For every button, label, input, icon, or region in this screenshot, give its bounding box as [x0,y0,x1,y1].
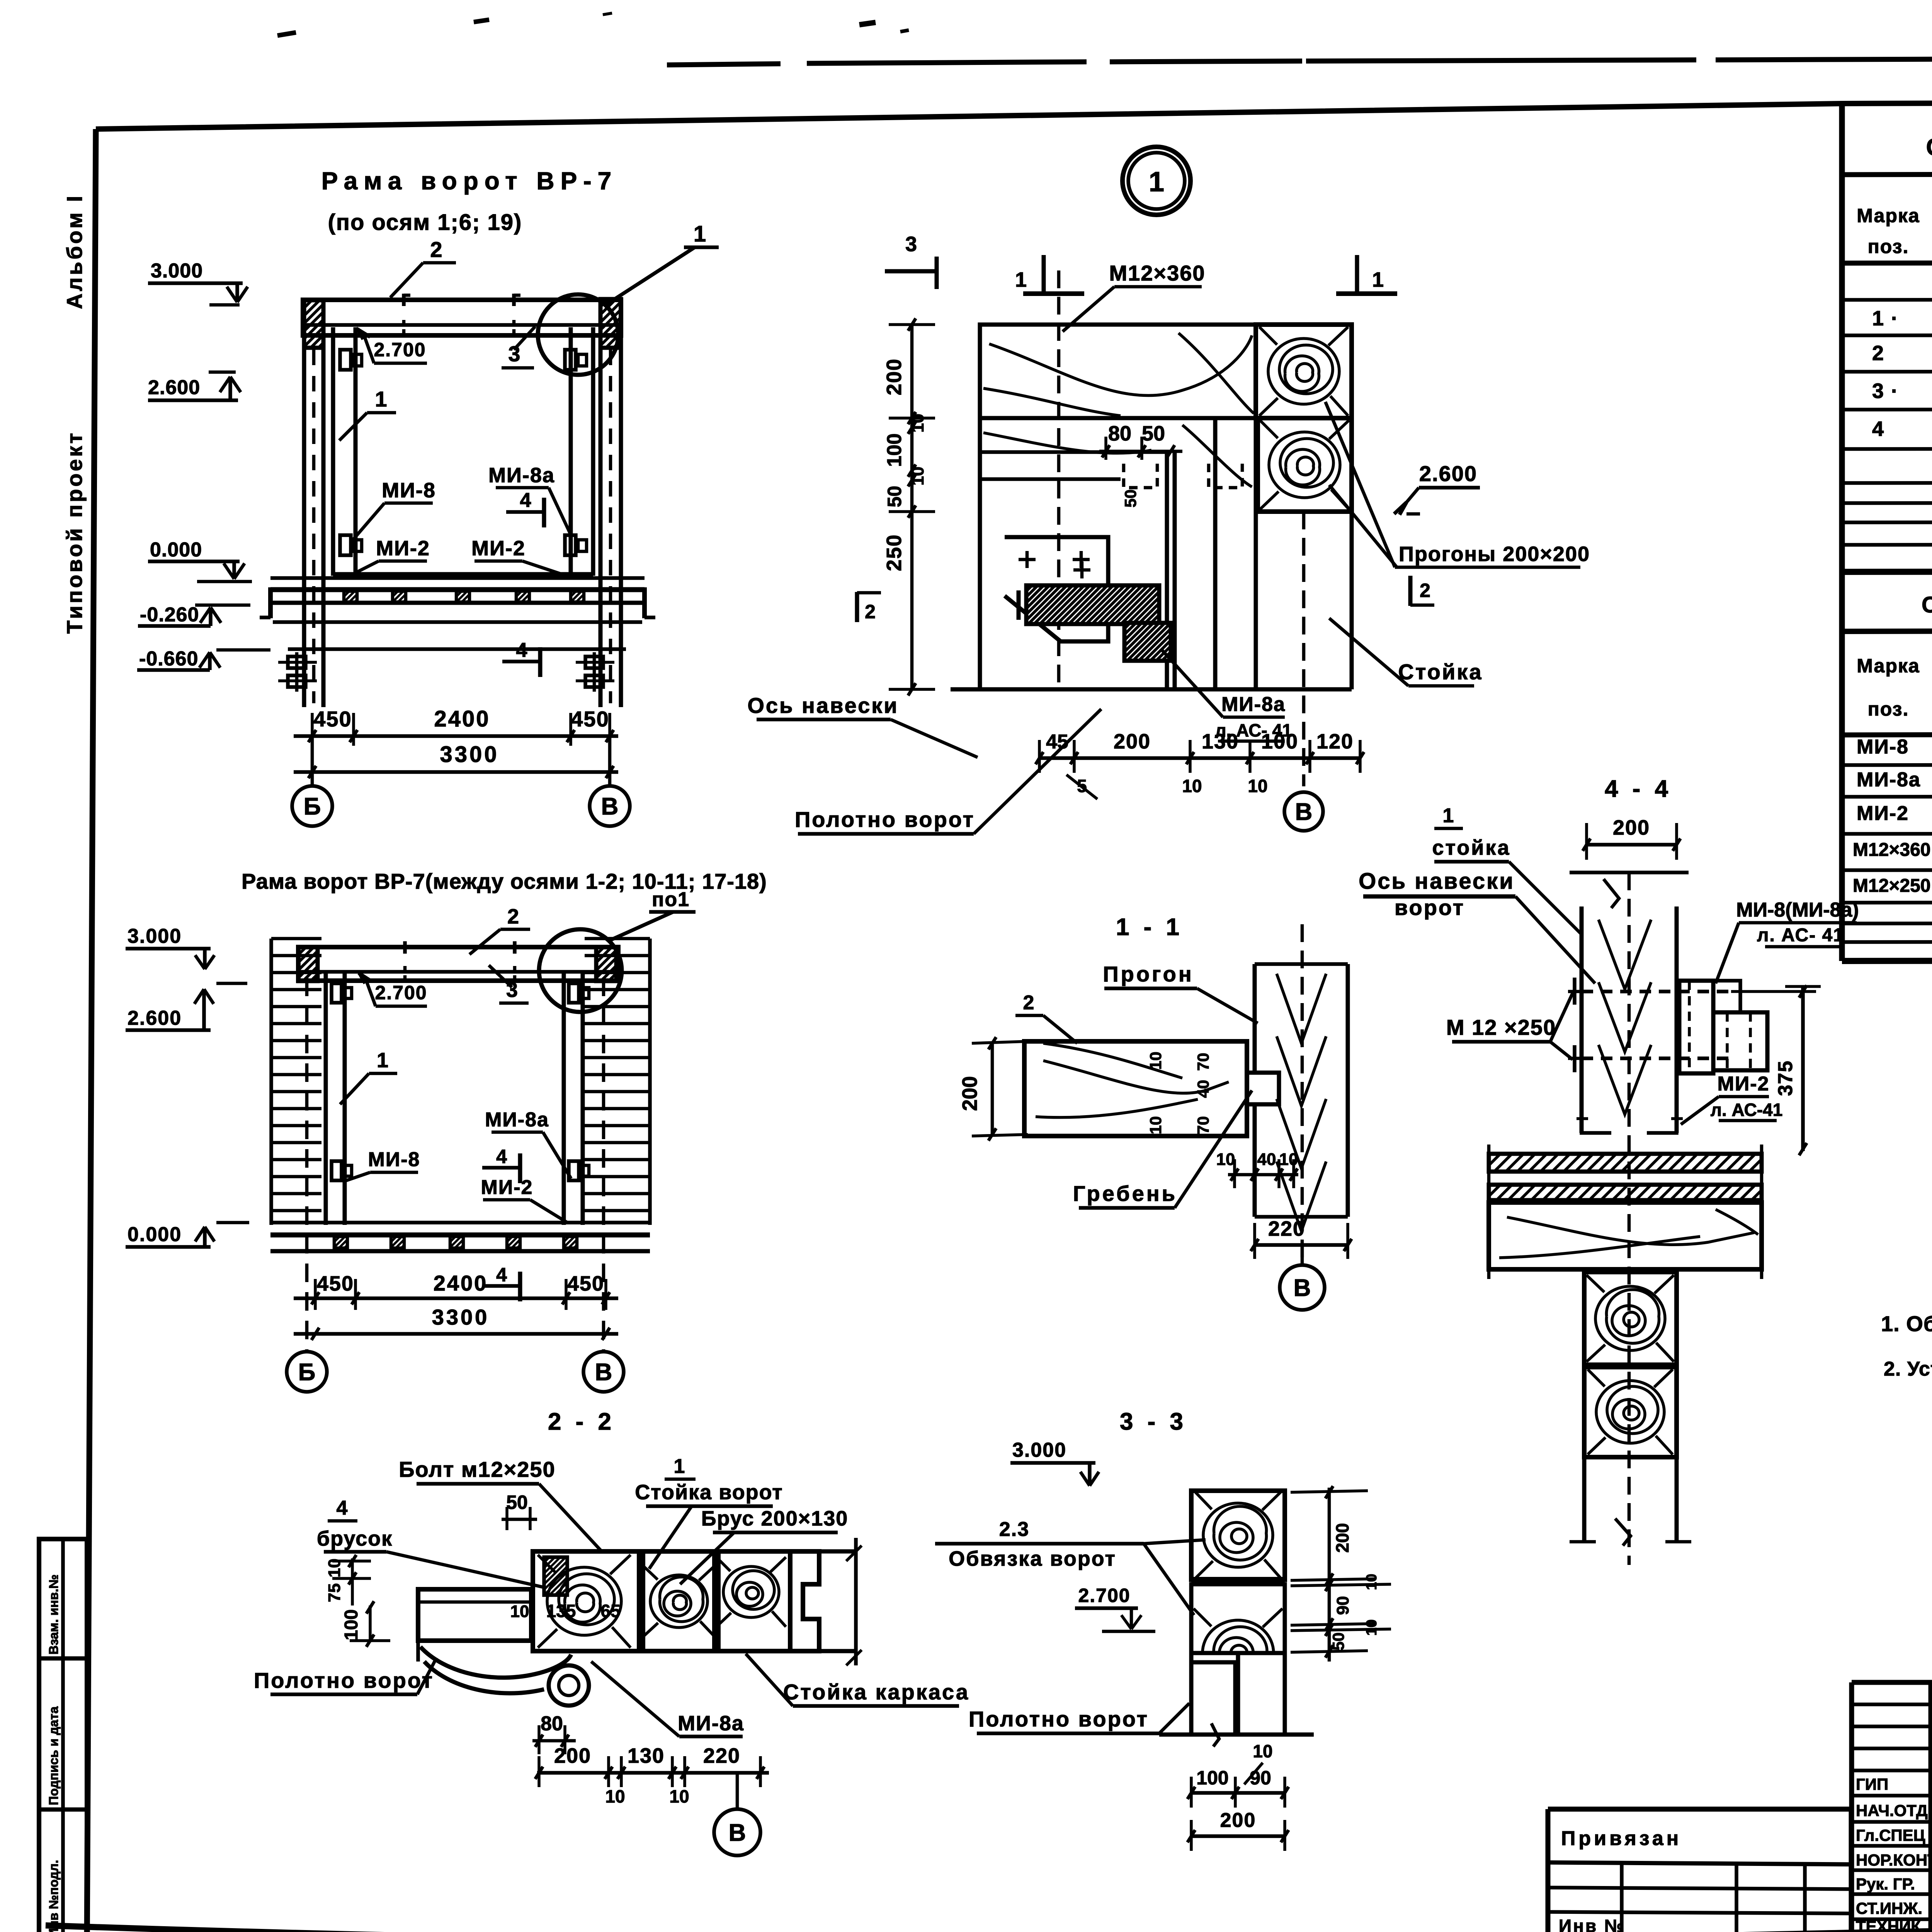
frame1 right post [599,348,603,707]
frame2 top beam [298,947,618,981]
detail1 hinge vertical part [1124,623,1171,661]
svg-text:10: 10 [908,414,927,433]
scan speck marks top [277,32,296,36]
s44 post break top [1604,879,1619,908]
svg-text:М12×360: М12×360 [1853,840,1931,860]
s22 square2 [643,1551,714,1651]
svg-text:Инв №: Инв № [1559,1916,1626,1932]
s44 hinge body [1679,981,1713,1073]
svg-text:В: В [1295,799,1313,825]
svg-text:2400: 2400 [434,706,490,731]
frame1 dim line 450-2400-450 [294,734,618,738]
svg-text:Марка: Марка [1857,655,1920,677]
frame1 left stile [331,327,335,576]
svg-text:1: 1 [1015,268,1027,291]
svg-text:МИ-2: МИ-2 [1857,802,1909,825]
s33 dims 100-90 [1191,1791,1285,1795]
detail1 axis dash hinge [1057,270,1061,689]
frame1 axis line right [608,736,612,785]
frame1 section2 mark right [642,587,647,618]
svg-text:МИ-2: МИ-2 [481,1176,533,1199]
svg-text:МИ-8(МИ-8а): МИ-8(МИ-8а) [1736,899,1859,921]
detail1 section mark 1 topleft [1042,255,1046,292]
s44 ring square 2 [1584,1367,1677,1457]
detail1 left edge [978,325,982,689]
frame1 section4 mark bottom [502,660,540,663]
svg-text:Альбом I: Альбом I [62,194,87,309]
detail1 ring square top [1256,325,1352,418]
svg-text:Ось навески: Ось навески [747,693,898,718]
svg-text:10: 10 [605,1786,625,1806]
svg-text:поз.: поз. [1868,698,1909,720]
svg-text:2 - 2: 2 - 2 [548,1408,615,1435]
svg-text:450: 450 [317,1272,354,1295]
s11 tenon [1247,1073,1279,1104]
svg-text:250: 250 [883,534,906,571]
frame1 top beam [303,300,621,335]
svg-text:Стойка ворот: Стойка ворот [635,1481,783,1504]
frame2 hinge #3 [332,1161,342,1180]
svg-text:1. Общие примечания смотри л.: 1. Общие примечания смотри л. АС-16 [1881,1311,1932,1336]
detail1 hinge barrel [1026,585,1159,624]
svg-text:(по осям 1;6; 19): (по осям 1;6; 19) [328,210,522,235]
svg-text:375: 375 [1774,1060,1797,1096]
s44 ring square 1 [1584,1272,1677,1365]
svg-text:200: 200 [554,1744,591,1767]
svg-text:10: 10 [1248,776,1267,796]
svg-text:Б: Б [304,793,321,820]
svg-text:В: В [595,1359,612,1386]
frame2 hinge #1 [332,983,342,1003]
svg-text:3.000: 3.000 [151,260,203,282]
detail1 leaf edge [1165,452,1169,689]
wood spec table left edge [1839,104,1845,572]
s11 dim 220 [1255,1243,1348,1247]
svg-text:2: 2 [1872,342,1884,365]
s44 floor band 2 [1489,1185,1762,1200]
svg-text:Гл.СПЕЦ: Гл.СПЕЦ [1856,1826,1925,1844]
s22 hinge strap [420,1647,571,1678]
svg-text:Обвязка ворот: Обвязка ворот [949,1547,1116,1570]
detail1 beam top band [980,325,1352,418]
s22 leaf [418,1589,531,1641]
s11 post grain [1277,974,1326,1043]
svg-text:450: 450 [313,707,352,731]
s22 leaf lines [418,1600,531,1604]
svg-text:2: 2 [430,237,443,262]
svg-text:Спецификация металлических из: Спецификация металлических изделий на ра… [1922,592,1932,617]
svg-text:МИ-8а: МИ-8а [485,1109,549,1131]
s44 floor band 1 [1489,1154,1762,1172]
metal spec heading bottom [1842,630,1932,631]
s44 beam below [1489,1202,1762,1269]
svg-text:10: 10 [1146,1052,1165,1070]
svg-text:10: 10 [1216,1150,1235,1169]
s33 rings mid [1194,1609,1282,1697]
svg-text:4 - 4: 4 - 4 [1605,776,1672,802]
frame2 axis dash right [602,978,605,1352]
frame1 beam hatch end left [304,300,323,348]
svg-text:Рук. ГР.: Рук. ГР. [1856,1875,1915,1893]
wood spec header bottom [1842,262,1932,263]
svg-text:1: 1 [1372,268,1384,291]
s22 axis В [714,1809,760,1855]
detail1 left dim chain [910,325,914,689]
frame2 right stile [562,972,566,1225]
s44 bolt tick bottom [1573,1045,1577,1072]
svg-text:1: 1 [1443,804,1454,827]
svg-text:В: В [1294,1275,1311,1301]
frame2 sill lines [270,1221,650,1225]
svg-text:3 ·: 3 · [1872,379,1899,403]
staff table row lines [1852,1794,1932,1798]
svg-text:450: 450 [571,707,609,731]
svg-text:4: 4 [520,489,531,512]
svg-text:130: 130 [628,1744,665,1767]
svg-text:Гребень: Гребень [1073,1181,1177,1206]
svg-text:50: 50 [1329,1633,1347,1651]
detail1 bottom dims [1039,756,1360,760]
svg-text:В: В [601,793,619,820]
s44 post below break [1615,1519,1631,1546]
frame1 hinge МИ-8 #4 [565,535,576,555]
svg-text:ГИП: ГИП [1856,1775,1888,1793]
svg-text:75: 75 [325,1583,344,1602]
svg-text:100: 100 [1196,1767,1228,1789]
s33 bottom ground [1159,1733,1314,1737]
frame2 dims 450-2400-450 [294,1296,618,1300]
svg-text:2.700: 2.700 [374,339,426,361]
s22 pritvor bar [544,1557,567,1595]
svg-text:-0.260: -0.260 [140,604,199,626]
detail1 dashed pocket left [1124,464,1157,488]
svg-text:2.600: 2.600 [1419,461,1477,486]
svg-text:50: 50 [1121,490,1139,508]
sheet bottom line [46,1920,1932,1932]
frame1 hinge МИ-8 #2 [565,350,576,370]
frame2 hatch blocks [334,1236,347,1248]
frame2 axis Б [287,1352,327,1392]
svg-text:200: 200 [1332,1523,1352,1553]
svg-text:0.000: 0.000 [150,539,202,561]
svg-text:3 - 3: 3 - 3 [1120,1408,1187,1435]
stamp cell divider 2 [39,1808,87,1812]
svg-text:1 ·: 1 · [1872,307,1899,330]
sheet top edge line [667,64,781,65]
svg-text:Болт м12×250: Болт м12×250 [399,1457,555,1481]
detail1 stoyka edge [1213,418,1218,689]
frame2 beam hatch right [596,947,616,981]
detail1 balloon [1122,147,1190,215]
s11 post axis [1301,924,1304,1260]
svg-text:3300: 3300 [432,1305,490,1329]
s22 square3 [718,1551,790,1651]
svg-text:ворот: ворот [1395,895,1465,920]
svg-text:МИ-8: МИ-8 [1857,736,1909,758]
svg-text:4: 4 [337,1497,348,1519]
svg-text:МИ-2: МИ-2 [376,537,430,560]
svg-text:НАЧ.ОТД: НАЧ.ОТД [1856,1801,1928,1820]
s44 hinge dash top [1582,990,1731,993]
svg-text:МИ-8а: МИ-8а [488,464,555,487]
metal spec header bottom [1842,733,1932,735]
s44 floor edge ticks [1487,1145,1491,1202]
svg-text:80: 80 [1108,422,1131,445]
s44 post below [1582,1457,1587,1542]
s44 post [1580,906,1584,1133]
frame1 axis Б [292,786,332,826]
svg-text:10: 10 [1279,1150,1298,1169]
frame1 hinge МИ-8 #3 [340,535,351,555]
s11 post [1253,964,1257,1073]
svg-text:200: 200 [958,1076,981,1111]
frame2 callout по1 [609,912,673,941]
svg-text:80: 80 [541,1713,563,1735]
svg-text:Инв №подл.: Инв №подл. [46,1860,61,1932]
wood spec heading underline row [1842,173,1932,175]
svg-text:200: 200 [1613,816,1650,839]
svg-text:В: В [729,1820,746,1846]
s44 beam below grain [1507,1217,1754,1245]
svg-text:МИ-8: МИ-8 [368,1148,420,1171]
svg-text:40: 40 [1257,1150,1276,1169]
frame1 anchor bolts #1 [288,656,306,668]
svg-text:л. АС-41: л. АС-41 [1711,1100,1783,1120]
svg-text:10: 10 [510,1602,529,1621]
stamp cell divider 1 [39,1656,87,1661]
frame1 dim line 3300 [294,770,618,774]
svg-text:Полотно ворот: Полотно ворот [254,1668,434,1692]
frame1 hinge МИ-8 #1 [340,350,351,370]
svg-text:Ось навески: Ось навески [1359,869,1515,894]
svg-text:45: 45 [1046,731,1068,753]
svg-text:200: 200 [1220,1809,1256,1832]
svg-text:450: 450 [567,1272,604,1295]
svg-text:200: 200 [1114,730,1151,753]
svg-text:10: 10 [908,467,927,486]
detail1 dashed pocket right [1209,464,1242,488]
svg-text:200: 200 [883,358,906,395]
svg-text:70: 70 [1194,1053,1212,1071]
s44 dim 375 [1801,986,1805,1151]
svg-text:2: 2 [865,601,876,622]
svg-text:М12×360: М12×360 [1109,261,1205,285]
s44 dim 200 top [1587,843,1677,847]
detail1 axis dash stoyka [1302,512,1306,786]
detail1 section mark 1 topright [1355,255,1359,292]
svg-text:10: 10 [1182,776,1202,796]
detail1 hinge plate [1005,537,1108,641]
svg-text:3: 3 [905,233,917,256]
svg-text:Полотно ворот: Полотно ворот [795,807,975,832]
svg-text:2.3: 2.3 [999,1518,1029,1541]
svg-text:Подпись и дата: Подпись и дата [46,1706,61,1805]
svg-text:ТЕХНИК: ТЕХНИК [1856,1917,1921,1932]
frame2 section4 mark b [482,1284,520,1288]
svg-text:50: 50 [506,1492,528,1513]
svg-text:50: 50 [884,486,905,507]
svg-text:3300: 3300 [440,742,499,767]
s33 divider [1191,1577,1285,1582]
frame1 right stile [569,327,573,576]
s11 post notch inner [1255,1071,1279,1075]
svg-text:Взам. инв.№: Взам. инв.№ [46,1575,61,1655]
detail1 axis В [1284,792,1323,831]
detail1 door top edge [980,477,1121,481]
frame1 floor hatch blocks [344,591,357,602]
s33 dim 200 b [1191,1834,1285,1838]
titleblock Привязан row line [1548,1862,1851,1864]
frame left border [87,129,96,1932]
s11 beam grain [1043,1061,1229,1093]
metal spec left edge [1839,572,1845,961]
frame2 beam bolts [403,941,407,954]
frame1 beam bolt marks [402,294,406,306]
svg-text:2: 2 [507,905,519,928]
svg-text:2: 2 [1023,992,1034,1014]
frame1 beam hatch end right [600,299,621,348]
svg-text:40: 40 [1194,1080,1212,1098]
frame2 hinge #2 [569,983,579,1003]
svg-text:М12×250: М12×250 [1853,876,1931,896]
svg-text:4: 4 [496,1264,507,1286]
frame1 axis line left [311,736,314,785]
svg-text:Брус 200×130: Брус 200×130 [701,1507,849,1530]
svg-text:Стойка: Стойка [1398,660,1483,684]
svg-text:4: 4 [1872,417,1884,440]
svg-text:МИ-2: МИ-2 [1718,1073,1770,1095]
s44 bolt tick top [1573,978,1577,1005]
wood spec row lines [1842,299,1932,300]
detail1 section mark 2 right [1408,576,1413,606]
s22 stoyka notch [790,1551,819,1651]
svg-text:1: 1 [377,1049,388,1072]
s11 dims 10-40-10 [1228,1173,1298,1177]
svg-text:4: 4 [496,1146,507,1167]
svg-text:90: 90 [1250,1767,1271,1789]
s22 square1 [533,1551,639,1651]
svg-text:л. АС- 41: л. АС- 41 [1757,925,1844,946]
frame2 beam hatch left [298,947,318,981]
svg-text:Стойка каркаса: Стойка каркаса [783,1680,969,1704]
detail1 bottom edge [951,687,1352,692]
frame1 axis В [590,786,630,826]
svg-text:МИ-8: МИ-8 [382,479,436,502]
titleblock Привязан dividers [1620,1862,1624,1932]
wood spec table bottom [1842,571,1932,572]
s33 square mid [1191,1584,1285,1653]
frame1 anchor bolts #2 [585,656,603,668]
svg-text:-0.660: -0.660 [139,648,198,670]
svg-text:10: 10 [1364,1619,1380,1636]
svg-text:Спецификация древесины на раму: Спецификация древесины на раму ворот ВР-… [1926,134,1932,161]
frame2 detail circle [539,929,622,1012]
svg-text:100: 100 [341,1609,362,1640]
detail1 section mark 2 left [855,592,859,622]
frame1 detail circle [538,294,618,375]
frame1 sill/floor lines [270,576,645,580]
svg-text:Марка: Марка [1857,205,1920,226]
staff table blank rows [1852,1702,1932,1706]
svg-text:2.700: 2.700 [1078,1585,1130,1606]
staff table col lines [1929,1682,1932,1932]
stamp inner divider [61,1539,65,1932]
s33 leaf right [1238,1653,1285,1735]
frame top line [96,101,1932,129]
svg-text:50: 50 [1142,422,1165,445]
svg-text:М 12 ×250: М 12 ×250 [1446,1015,1556,1039]
detail1 right edge [1350,325,1354,512]
s22 bottom dims [537,1771,769,1775]
titleblock Привязан rows [1548,1888,1851,1889]
detail1 band2 grain [983,433,1151,453]
svg-text:4: 4 [516,639,527,662]
svg-text:Прогоны 200×200: Прогоны 200×200 [1399,543,1590,566]
svg-text:СТ.ИНЖ.: СТ.ИНЖ. [1856,1899,1922,1917]
svg-text:2.600: 2.600 [148,376,200,399]
svg-text:100: 100 [883,434,906,467]
s33 right dim line [1328,1488,1331,1662]
frame2 section4 mark [482,1166,520,1170]
svg-text:МИ-8а: МИ-8а [1857,769,1921,791]
metal spec table bottom [1842,960,1932,961]
s44 post axis [1628,872,1631,1565]
svg-text:10: 10 [669,1786,689,1806]
svg-text:МИ-8а: МИ-8а [678,1712,744,1735]
s33 leaf left [1191,1653,1235,1735]
svg-text:10: 10 [1146,1116,1165,1134]
svg-text:1: 1 [694,221,707,247]
svg-text:Б: Б [298,1359,316,1386]
s11 axis В [1280,1265,1325,1310]
svg-text:Прогон: Прогон [1103,962,1194,986]
svg-text:135: 135 [546,1601,576,1621]
svg-text:1: 1 [674,1455,685,1478]
svg-text:120: 120 [1316,730,1354,753]
svg-text:220: 220 [1268,1217,1305,1240]
svg-text:2. Установку рамы ворот ВР-6 в: 2. Установку рамы ворот ВР-6 выполнять а… [1884,1358,1932,1380]
svg-text:3.000: 3.000 [1012,1439,1066,1461]
svg-text:брусок: брусок [317,1527,393,1550]
svg-text:65: 65 [600,1601,620,1621]
svg-text:130: 130 [1202,730,1239,753]
s44 post grain [1599,920,1651,989]
svg-text:стойка: стойка [1432,836,1510,859]
s44 hinge dash bottom [1582,1056,1731,1060]
svg-text:3.000: 3.000 [128,925,182,947]
detail1 beam grain [989,335,1252,395]
s33 label Обвязка ворот [935,1542,1144,1546]
svg-text:2: 2 [1420,580,1430,601]
s44 beam end ticks [1487,1194,1491,1279]
svg-text:10: 10 [1253,1741,1272,1761]
frame2 wall edges [269,939,273,1225]
svg-text:МИ-2: МИ-2 [471,537,526,560]
frame1 left post [302,348,306,707]
svg-text:0.000: 0.000 [128,1223,182,1246]
svg-text:2400: 2400 [434,1271,488,1295]
staff table outline [1852,1682,1932,1932]
svg-text:МИ-8а: МИ-8а [1221,693,1286,716]
svg-text:НОР.КОНТ: НОР.КОНТ [1856,1851,1932,1869]
svg-text:1 - 1: 1 - 1 [1116,914,1183,940]
svg-text:10: 10 [1364,1574,1380,1590]
metal spec row lines [1842,764,1932,765]
frame1 section2 mark left [268,587,273,618]
frame2 wall siding [271,937,321,940]
titleblock Привязан box [1548,1809,1851,1932]
svg-text:по1: по1 [652,888,690,911]
